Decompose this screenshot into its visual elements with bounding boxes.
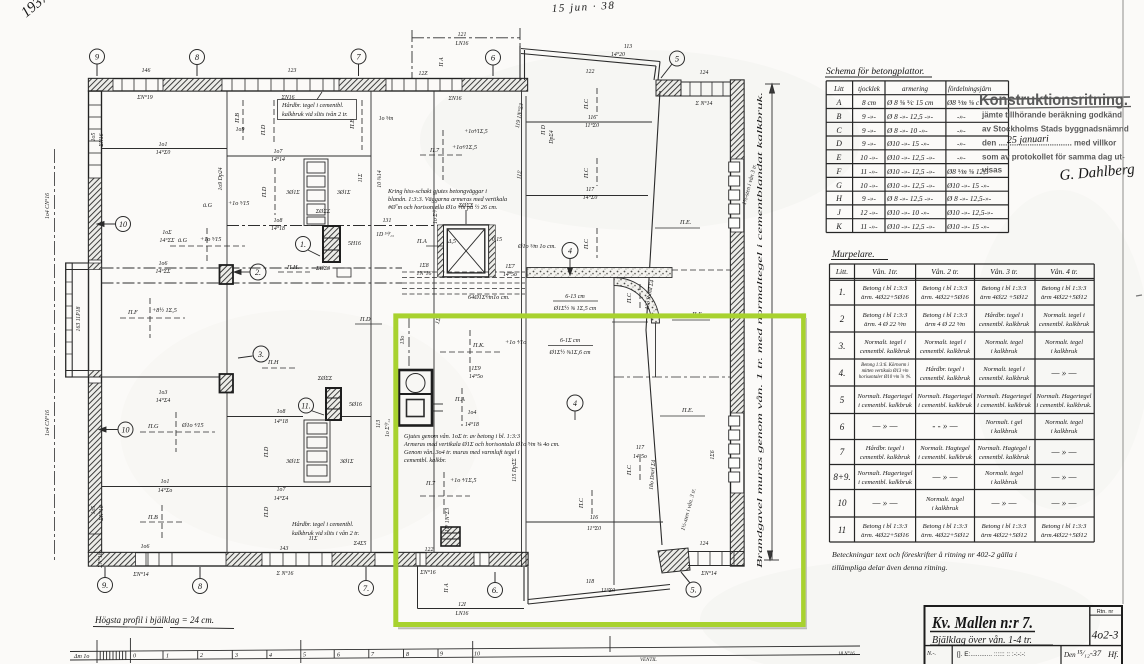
bottom protrusion — [418, 566, 525, 609]
svg-text:LN16: LN16 — [455, 611, 469, 617]
svg-text:ΣØΣΣ: ΣØΣΣ — [315, 209, 331, 215]
svg-text:11°Σ0: 11°Σ0 — [585, 122, 599, 129]
interior partition x614 lower — [613, 278, 615, 586]
dimension line above top wall — [412, 28, 520, 78]
svg-text:Normalt. tegel: Normalt. tegel — [984, 470, 1023, 477]
svg-text:Π.E.: Π.E. — [681, 407, 693, 414]
room crosses with labels — [120, 88, 710, 540]
svg-text:Ø8 ⁵⁄m ⅝ c: Ø8 ⁵⁄m ⅝ c — [946, 98, 980, 107]
svg-text:Π.D: Π.D — [263, 506, 270, 518]
svg-text:Ø 8 -»- 12,5 -»-: Ø 8 -»- 12,5 -»- — [886, 194, 934, 203]
svg-text:Vån. 4 tr.: Vån. 4 tr. — [1050, 267, 1078, 276]
interior partition x526 — [521, 91, 523, 567]
svg-text:i kalkbruk: i kalkbruk — [991, 428, 1019, 435]
svg-text:113: 113 — [376, 420, 382, 428]
svg-text:kalkbruk vid slits ivån 2 tr.: kalkbruk vid slits ivån 2 tr. — [282, 111, 348, 118]
svg-text:6-1Σ cm: 6-1Σ cm — [560, 338, 581, 344]
svg-text:11°Σ0: 11°Σ0 — [587, 525, 601, 532]
svg-text:11°Σ0: 11°Σ0 — [601, 587, 615, 594]
svg-text:Ø1Σ½ ⅝1Σ,6 cm: Ø1Σ½ ⅝1Σ,6 cm — [549, 349, 592, 356]
svg-text:ΣN16: ΣN16 — [447, 96, 461, 102]
svg-text:14°Σ4: 14°Σ4 — [156, 397, 171, 404]
svg-text:Π.B: Π.B — [147, 514, 158, 521]
svg-text:Betong i bl 1:3:3: Betong i bl 1:3:3 — [863, 523, 909, 530]
svg-text:Π.K.: Π.K. — [472, 342, 485, 349]
svg-text:Brandgavel muras genom vån.: Brandgavel muras genom vån. 1 tr. med no… — [755, 92, 764, 568]
svg-text:Murpelare.: Murpelare. — [831, 250, 875, 260]
small stair block at bottom wall — [441, 527, 460, 546]
svg-text:Vån. 3 tr.: Vån. 3 tr. — [990, 267, 1018, 276]
svg-text:9 -»-: 9 -»- — [862, 139, 877, 148]
svg-text:2.: 2. — [255, 268, 261, 277]
svg-text:14°ΣΣ: 14°ΣΣ — [155, 268, 171, 275]
svg-text:143: 143 — [280, 545, 289, 552]
svg-text:i cementbl. kalkbruk: i cementbl. kalkbruk — [858, 402, 913, 409]
svg-text:146: 146 — [142, 67, 151, 74]
svg-text:+1o ⁴⁄1Σ,5: +1o ⁴⁄1Σ,5 — [450, 477, 477, 484]
svg-text:Kv. Mallen n:r 7.: Kv. Mallen n:r 7. — [931, 613, 1033, 632]
approval stamp: Konstruktionsritning — [979, 92, 1131, 175]
svg-text:10: 10 — [838, 498, 848, 508]
svg-text:Ø 8 -»- 12,5-»-: Ø 8 -»- 12,5-»- — [946, 194, 992, 203]
svg-text:jämte tillhörande beräkning go: jämte tillhörande beräkning godkänd — [981, 111, 1122, 120]
svg-text:Normalt. tegel i: Normalt. tegel i — [923, 339, 966, 346]
svg-text:64Ø1Σ⁴⁄m1o cm.: 64Ø1Σ⁴⁄m1o cm. — [468, 294, 510, 301]
murpelare litt column — [833, 287, 850, 535]
svg-text:1.: 1. — [300, 240, 306, 249]
svg-text:Schema för betongplattor.: Schema för betongplattor. — [826, 66, 924, 77]
svg-text:Normalt. Hagertegel: Normalt. Hagertegel — [976, 393, 1032, 400]
svg-text:Betong 1:3:6. Körnorm i: Betong 1:3:6. Körnorm i — [861, 363, 909, 368]
svg-text:-»-: -»- — [957, 139, 966, 148]
right outer wall — [729, 80, 744, 566]
svg-text:LN16: LN16 — [455, 41, 469, 47]
bottom-right block: slanted bottom wall — [524, 567, 670, 604]
svg-text:Normalt. tegel: Normalt. tegel — [925, 496, 964, 503]
svg-text:10 ⅜14: 10 ⅜14 — [376, 170, 383, 187]
svg-text:12I: 12I — [458, 602, 467, 608]
slanted top edge — [521, 49, 660, 62]
svg-text:ΣN°14: ΣN°14 — [700, 570, 717, 577]
svg-text:ΣN16: ΣN16 — [280, 95, 294, 101]
svg-text:Normalt. Hagertegel: Normalt. Hagertegel — [857, 470, 913, 477]
svg-text:Betong i bl 1:3:3: Betong i bl 1:3:3 — [923, 523, 969, 530]
plan text notes — [278, 92, 657, 663]
svg-text:1o ⁵⁄m: 1o ⁵⁄m — [379, 116, 393, 122]
svg-text:115 DpΣΣ: 115 DpΣΣ — [512, 458, 518, 482]
svg-text:Π.A: Π.A — [454, 396, 465, 403]
svg-text:J: J — [837, 208, 841, 217]
svg-text:-»-: -»- — [957, 112, 966, 121]
ventilation block in green area — [399, 370, 443, 426]
svg-text:118: 118 — [586, 579, 594, 585]
svg-text:cementbl. kalkbruk: cementbl. kalkbruk — [979, 375, 1030, 382]
svg-text:9 -»-: 9 -»- — [862, 126, 877, 135]
svg-text:Π.7: Π.7 — [425, 480, 436, 487]
svg-text:Π.G: Π.G — [147, 423, 159, 430]
svg-text:0: 0 — [133, 654, 136, 660]
svg-text:A: A — [836, 98, 842, 107]
svg-text:D: D — [835, 139, 842, 148]
svg-text:9 -»-: 9 -»- — [862, 194, 877, 203]
svg-text:¹⁵⁄₁₂-37: ¹⁵⁄₁₂-37 — [1077, 648, 1102, 658]
svg-text:ΣØΣΣ: ΣØΣΣ — [317, 376, 333, 382]
svg-text:mitten vertikala Ø13 ⁵⁄m: mitten vertikala Ø13 ⁵⁄m — [862, 368, 909, 374]
svg-text:1Σ6: 1Σ6 — [710, 450, 716, 459]
svg-text:3: 3 — [234, 653, 238, 659]
svg-text:Ø10 -»- 15 -»-: Ø10 -»- 15 -»- — [946, 181, 990, 190]
svg-text:den ..........................: den ................................. me… — [982, 139, 1116, 148]
svg-text:4: 4 — [568, 247, 572, 256]
svg-text:Normalt. tegel: Normalt. tegel — [984, 339, 1023, 346]
svg-text:11 -»-: 11 -»- — [860, 222, 878, 231]
svg-text:1Σ9: 1Σ9 — [471, 366, 480, 372]
svg-text:i kalkbruk: i kalkbruk — [1051, 348, 1079, 355]
svg-text:Normalt. Hagtegel: Normalt. Hagtegel — [919, 445, 970, 452]
svg-text:-»-: -»- — [957, 153, 966, 162]
svg-text:5: 5 — [675, 54, 679, 64]
svg-text:3Ø1Σ: 3Ø1Σ — [339, 459, 354, 465]
svg-text:1o9 Dp24: 1o9 Dp24 — [217, 167, 224, 190]
interior partition x367 upper — [370, 91, 372, 553]
svg-text:14°Σ0: 14°Σ0 — [156, 149, 171, 156]
svg-text:+1o ⁴⁄1o: +1o ⁴⁄1o — [505, 339, 526, 346]
svg-text:14°ΣΣ: 14°ΣΣ — [159, 237, 175, 244]
svg-text:Δm 1o: Δm 1o — [73, 654, 89, 660]
svg-text:Litt: Litt — [833, 85, 845, 93]
svg-text:F: F — [836, 167, 842, 176]
svg-text:1o4 CN°16: 1o4 CN°16 — [44, 193, 51, 219]
svg-text:6.: 6. — [492, 585, 498, 595]
left wall — [89, 91, 102, 566]
svg-text:Hårdbr. tegel i cementbl.: Hårdbr. tegel i cementbl. — [291, 521, 353, 528]
svg-text:cementbl. kalkbruk: cementbl. kalkbruk — [979, 321, 1030, 328]
svg-text:Π.F: Π.F — [127, 309, 138, 316]
svg-text:ärm 4Ø22+5Ø12: ärm 4Ø22+5Ø12 — [981, 532, 1028, 539]
svg-text:11Σ: 11Σ — [358, 173, 364, 182]
svg-text:Hårdbr. tegel i: Hårdbr. tegel i — [925, 366, 965, 373]
svg-text:ü.G: ü.G — [203, 202, 213, 209]
bottom-right hatched corner pier — [658, 548, 690, 573]
svg-text:Betong i bl 1:3:3: Betong i bl 1:3:3 — [863, 285, 909, 292]
svg-text:ΣØΣ3: ΣØΣ3 — [315, 266, 330, 272]
svg-text:14°Σ0: 14°Σ0 — [583, 194, 598, 201]
svg-text:12 -»-: 12 -»- — [860, 208, 878, 217]
scale bar — [70, 636, 860, 663]
svg-text:25 januari: 25 januari — [1007, 134, 1050, 146]
svg-text:1o1: 1o1 — [161, 479, 170, 485]
svg-text:7: 7 — [840, 447, 845, 457]
interior horizontal partitions — [89, 122, 664, 522]
svg-text:Normalt. tegel i: Normalt. tegel i — [863, 339, 906, 346]
schema table data rows — [835, 98, 993, 231]
svg-text:ärm. 4Ø22+5Ø16: ärm. 4Ø22+5Ø16 — [861, 532, 909, 539]
svg-text:ΣN°16: ΣN°16 — [419, 569, 436, 576]
svg-text:Ø1Σ½ ⅝ 1Σ,5 cm: Ø1Σ½ ⅝ 1Σ,5 cm — [553, 305, 597, 312]
svg-text:N.-.: N.-. — [926, 651, 936, 657]
svg-text:Normalt. tegel i: Normalt. tegel i — [1042, 312, 1085, 319]
svg-text:14°Σo: 14°Σo — [158, 487, 173, 494]
svg-text:horisontaler Ø10 ⁵⁄m ⅞ ⅘.: horisontaler Ø10 ⁵⁄m ⅞ ⅘. — [859, 374, 911, 380]
svg-text:i kalkbruk: i kalkbruk — [1051, 428, 1079, 435]
svg-text:Π.7: Π.7 — [429, 147, 440, 154]
svg-text:i cementbl. kalkbruk: i cementbl. kalkbruk — [977, 402, 1032, 409]
svg-text:13o: 13o — [400, 336, 406, 345]
svg-text:Π.D: Π.D — [359, 316, 371, 323]
svg-text:Hårdbr. tegel i cementbl.: Hårdbr. tegel i cementbl. — [281, 102, 343, 109]
svg-text:122: 122 — [586, 69, 595, 75]
svg-text:Ø10 -»- 12,5 -»-: Ø10 -»- 12,5 -»- — [886, 167, 935, 176]
svg-text:blandn. 1:3:3. Väggarna armera: blandn. 1:3:3. Väggarna armeras med vert… — [388, 196, 507, 203]
murpelare header row — [835, 267, 1078, 276]
svg-text:+1o⁴⁄1Σ,5: +1o⁴⁄1Σ,5 — [464, 129, 487, 135]
svg-text:Armeras med vertikala Ø1Σ och: Armeras med vertikala Ø1Σ och horisontal… — [403, 441, 560, 448]
svg-text:+1o ⁹⁄15: +1o ⁹⁄15 — [200, 236, 221, 243]
svg-text:Σ N°16: Σ N°16 — [276, 570, 294, 577]
svg-text:14°18: 14°18 — [465, 421, 479, 428]
svg-text:117: 117 — [636, 445, 645, 451]
svg-text:- - » —: - - » — — [932, 421, 958, 431]
svg-text:6: 6 — [337, 652, 340, 658]
interior reference circles — [116, 217, 584, 438]
svg-text:Π.D: Π.D — [261, 186, 268, 198]
svg-text:ΣN°19: ΣN°19 — [136, 94, 153, 101]
svg-text:Ø 8 -»- 12,5 -»-: Ø 8 -»- 12,5 -»- — [886, 112, 934, 121]
svg-text:ärm. 4Ø22+5Ø16: ärm. 4Ø22+5Ø16 — [921, 294, 969, 301]
svg-text:6-13 cm: 6-13 cm — [565, 294, 585, 300]
svg-text:Hf.: Hf. — [1107, 649, 1119, 659]
svg-text:8: 8 — [406, 652, 409, 658]
svg-text:122: 122 — [425, 547, 434, 553]
svg-text:Betong i bl 1:3:3: Betong i bl 1:3:3 — [923, 312, 969, 319]
svg-text:Vån. 2 tr.: Vån. 2 tr. — [931, 267, 959, 276]
svg-text:9.: 9. — [102, 580, 108, 590]
dark flue block lower — [326, 388, 341, 420]
svg-text:B: B — [837, 112, 842, 121]
svg-text:1D ⁵⁰⁄₁₃: 1D ⁵⁰⁄₁₃ — [376, 231, 394, 238]
svg-text:1N°16: 1N°16 — [417, 270, 432, 277]
svg-text:11 -»-: 11 -»- — [860, 167, 878, 176]
svg-text:cementbl. kalkbruk: cementbl. kalkbruk — [860, 348, 911, 355]
top-right corner hatched pier — [656, 80, 681, 96]
svg-text:ärm 4Ø22+5Ø12: ärm 4Ø22+5Ø12 — [1041, 294, 1088, 301]
svg-text:5.: 5. — [690, 585, 696, 595]
svg-text:14°18: 14°18 — [271, 225, 285, 232]
svg-text:Ø10 -»- 10 -»-: Ø10 -»- 10 -»- — [886, 208, 930, 217]
svg-text:5Ø16: 5Ø16 — [349, 402, 362, 408]
svg-text:10: 10 — [122, 426, 130, 435]
svg-text:Ø 8 ⅝ ⁵⁄c 15 cm: Ø 8 ⅝ ⁵⁄c 15 cm — [886, 98, 933, 107]
svg-text:— » —: — » — — [931, 472, 958, 482]
svg-text:Normalt. Hagtegel i: Normalt. Hagtegel i — [977, 445, 1031, 452]
top-right wall to the right outer wall — [681, 82, 733, 96]
svg-text:1o7: 1o7 — [277, 487, 287, 493]
svg-text:10: 10 — [474, 651, 480, 657]
svg-text:K: K — [835, 222, 842, 231]
green highlight rectangle — [396, 316, 804, 625]
svg-text:— » —: — » — — [1050, 498, 1077, 508]
svg-text:#Ø˝m och horisontella Ø1o ⁵⁄m: #Ø˝m och horisontella Ø1o ⁵⁄m på ½ 26 cm… — [388, 204, 497, 211]
elevator shaft — [438, 210, 496, 277]
svg-text:Π.C: Π.C — [583, 98, 590, 110]
svg-text:1o Σ⁰⁄₁₄: 1o Σ⁰⁄₁₄ — [384, 419, 391, 437]
svg-text:armering: armering — [902, 85, 929, 93]
svg-text:14°5o: 14°5o — [503, 271, 517, 278]
svg-text:7.: 7. — [363, 583, 369, 593]
svg-text:[]. E:............ :::::: :: :: []. E:............ :::::: :: :-:-:-: — [957, 651, 1026, 658]
murpelare table grid — [830, 264, 1095, 542]
interior dimension label pairs — [141, 115, 647, 550]
svg-text:i cementbl. kalkbruk: i cementbl. kalkbruk — [858, 479, 913, 486]
svg-text:18 N°16: 18 N°16 — [838, 652, 855, 657]
svg-text:3Ø1Σ: 3Ø1Σ — [285, 190, 300, 196]
interior partition x434 — [433, 91, 435, 553]
svg-text:Π D: Π D — [541, 124, 547, 136]
svg-text:Π.D: Π.D — [260, 124, 267, 136]
svg-text:Π.H: Π.H — [267, 359, 279, 366]
svg-text:— » —: — » — — [1050, 368, 1077, 378]
svg-text:10 -»-: 10 -»- — [860, 153, 878, 162]
svg-text:ΣN16: ΣN16 — [99, 133, 105, 147]
svg-text:Högsta profil i bjälklag = 24: Högsta profil i bjälklag = 24 cm. — [94, 615, 214, 625]
svg-text:14°18: 14°18 — [274, 418, 288, 425]
svg-text:cementbl. kalkbr.: cementbl. kalkbr. — [404, 457, 446, 464]
top-right block: left vertical wall — [520, 46, 660, 80]
reinforced slab band dashes — [402, 272, 525, 294]
svg-text:1.: 1. — [839, 287, 846, 297]
svg-text:Hårdbr. tegel i: Hårdbr. tegel i — [865, 445, 905, 452]
svg-text:ΣN°16: ΣN°16 — [98, 505, 105, 522]
svg-text:+1o ⁹⁄15: +1o ⁹⁄15 — [228, 200, 249, 207]
svg-text:Π.C: Π.C — [583, 238, 590, 250]
svg-text:— » —: — » — — [1050, 472, 1077, 482]
svg-text:8 cm: 8 cm — [862, 98, 876, 107]
svg-text:1o8: 1o8 — [274, 218, 283, 224]
svg-text:6: 6 — [840, 422, 845, 432]
svg-text:ärm. 4Ø22+5Ø12: ärm. 4Ø22+5Ø12 — [921, 532, 969, 539]
svg-text:Σ N°14: Σ N°14 — [695, 100, 713, 107]
svg-text:VENTIL: VENTIL — [640, 658, 657, 663]
svg-text:1o5: 1o5 — [91, 133, 97, 142]
svg-text:Hårdbr. tegel i: Hårdbr. tegel i — [984, 312, 1024, 319]
svg-text:2: 2 — [840, 314, 845, 324]
schema table grid — [826, 81, 1008, 233]
svg-text:Π.C: Π.C — [583, 167, 590, 179]
svg-text:kalkbruk vid slits i vån 2 tr.: kalkbruk vid slits i vån 2 tr. — [292, 530, 359, 537]
svg-text:12Z: 12Z — [418, 71, 428, 77]
svg-text:G: G — [836, 181, 842, 190]
svg-text:Π.B: Π.B — [349, 119, 356, 130]
bottom-right wall segment — [688, 552, 744, 566]
svg-text:2: 2 — [200, 653, 203, 659]
svg-text:Rtn. nr: Rtn. nr — [1097, 609, 1114, 615]
svg-text:117: 117 — [586, 187, 595, 193]
svg-text:Π.C: Π.C — [626, 292, 633, 304]
svg-text:Normalt. t gel: Normalt. t gel — [985, 419, 1023, 426]
svg-text:i kalkbruk: i kalkbruk — [991, 479, 1019, 486]
svg-text:Π.C: Π.C — [578, 497, 585, 509]
svg-text:124: 124 — [700, 540, 709, 547]
svg-text:11⁹ 1N°Σ3: 11⁹ 1N°Σ3 — [444, 508, 451, 532]
svg-text:tillämpliga delar även denna r: tillämpliga delar även denna ritning. — [832, 563, 947, 572]
svg-text:14°20: 14°20 — [611, 51, 625, 58]
svg-text:121: 121 — [458, 32, 467, 38]
paper fold line right — [1122, 0, 1124, 604]
svg-text:113: 113 — [624, 44, 632, 50]
svg-text:ärm.4Ø22+5Ø12: ärm.4Ø22+5Ø12 — [1041, 532, 1088, 539]
svg-text:Den: Den — [1063, 651, 1076, 659]
svg-text:+1o⁴⁄1Σ,5: +1o⁴⁄1Σ,5 — [452, 144, 477, 151]
svg-text:11: 11 — [838, 525, 846, 535]
svg-text:Π A: Π A — [444, 583, 450, 594]
svg-text:Normalt. Hagertegel: Normalt. Hagertegel — [1036, 393, 1092, 400]
svg-text:ΣN°14: ΣN°14 — [132, 571, 149, 578]
svg-text:1o4: 1o4 — [468, 409, 477, 416]
svg-text:10 -»-: 10 -»- — [860, 181, 878, 190]
svg-text:14°5o: 14°5o — [469, 373, 483, 380]
svg-text:4: 4 — [573, 399, 577, 408]
svg-text:DpΣ4: DpΣ4 — [548, 130, 555, 145]
svg-text:Normalt. Hagertegel: Normalt. Hagertegel — [917, 393, 973, 400]
svg-text:9 -»-: 9 -»- — [862, 112, 877, 121]
svg-text:cementbl. kalkbruk: cementbl. kalkbruk — [860, 454, 911, 461]
grid circles top — [90, 49, 685, 78]
top wall — [89, 79, 528, 92]
svg-text:1Σ7: 1Σ7 — [505, 264, 515, 270]
schema table header row — [833, 85, 992, 93]
dark flue block with circle 1 leader — [323, 226, 351, 277]
svg-text:131: 131 — [383, 218, 392, 224]
svg-text:9: 9 — [440, 652, 443, 658]
svg-text:Π.A: Π.A — [416, 238, 427, 245]
svg-text:av Stockholms Stads byggnadsnä: av Stockholms Stads byggnadsnämnd — [982, 125, 1129, 134]
title block frame — [925, 606, 1123, 664]
grid circles bottom — [98, 567, 702, 598]
svg-text:1: 1 — [166, 654, 169, 660]
svg-text:1o1: 1o1 — [159, 142, 168, 148]
svg-text:Π.E.: Π.E. — [679, 219, 691, 226]
svg-text:i cementbl. kalkbruk.: i cementbl. kalkbruk. — [1036, 402, 1092, 409]
stippled wall band — [527, 268, 672, 278]
svg-text:14°14: 14°14 — [271, 156, 285, 163]
brandgavel diagonal line — [646, 91, 662, 545]
svg-text:1o5: 1o5 — [91, 506, 97, 515]
left wing (bay) walls — [66, 263, 89, 377]
vertical dimension line right of plan — [764, 84, 780, 560]
svg-text:Normalt. Hagertegel: Normalt. Hagertegel — [857, 393, 913, 400]
svg-text:11.: 11. — [301, 402, 310, 411]
svg-text:Δ,5: Δ,5 — [447, 239, 456, 245]
svg-text:Genom vån. 3o4 tr. muras med v: Genom vån. 3o4 tr. muras med varmluft te… — [404, 449, 520, 456]
svg-text:116: 116 — [590, 515, 598, 521]
svg-text:Litt.: Litt. — [835, 267, 848, 276]
svg-text:14°Σ4: 14°Σ4 — [274, 495, 289, 502]
svg-text:Ø 8 -»- 10 -»-: Ø 8 -»- 10 -»- — [886, 126, 928, 135]
svg-text:Normalt. tegel: Normalt. tegel — [1044, 419, 1083, 426]
svg-text:5: 5 — [840, 395, 845, 405]
svg-text:Π.B: Π.B — [234, 113, 241, 124]
svg-text:Ø10 -»- 12,5 -»-: Ø10 -»- 12,5 -»- — [886, 153, 935, 162]
svg-text:163 11P18: 163 11P18 — [76, 306, 82, 331]
stair with treads — [304, 420, 330, 482]
svg-text:Betong i bl 1:3:3: Betong i bl 1:3:3 — [863, 312, 909, 319]
svg-text:ärm 4Ø22 +5Ø12: ärm 4Ø22 +5Ø12 — [980, 294, 1028, 301]
svg-text:Π A: Π A — [439, 57, 445, 68]
svg-text:Ø10 -»- 12,5 -»-: Ø10 -»- 12,5 -»- — [886, 181, 935, 190]
svg-text:cementbl. kalkbruk: cementbl. kalkbruk — [1039, 321, 1090, 328]
partition blocks on x227 wall — [220, 265, 234, 284]
svg-text:1o6: 1o6 — [159, 261, 168, 267]
